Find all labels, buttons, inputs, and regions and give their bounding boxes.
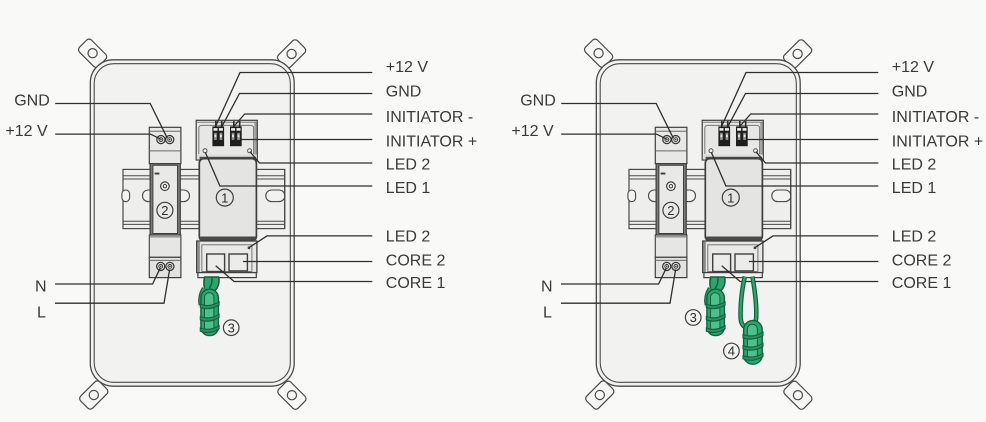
mounting tab top-right (B) [782, 38, 813, 69]
cable W4B coil wraps [743, 332, 763, 360]
svg-text:LED 2: LED 2 [386, 156, 431, 173]
svg-text:LED 2: LED 2 [892, 229, 937, 246]
mounting tab bottom-right (B) [782, 380, 813, 411]
device U2 screw (A) [161, 182, 170, 191]
DIN rail slot right end (A) [266, 190, 285, 202]
cable W4B lead wire left [741, 277, 746, 328]
svg-text:CORE 2: CORE 2 [386, 253, 446, 270]
device U2 terminal L (bottom right) (B) [672, 262, 680, 270]
callout line L (B) [561, 270, 676, 304]
DIN rail slot left end (B) [628, 190, 636, 202]
device U2 lower band (A) [149, 235, 181, 257]
device U1 terminal block left (+12V/GND) pins (B) [718, 121, 730, 146]
device U1 terminal block right (INITIATOR) pins (A) [230, 121, 242, 146]
callout line LED 2 (top) (A) [250, 152, 372, 163]
DIN rail slot 2 (B) [649, 190, 665, 202]
device U1 LED 1 dot (A) [203, 149, 207, 153]
device U2 lower band (B) [655, 235, 687, 257]
svg-text:1: 1 [221, 190, 228, 205]
cable W3B lead wires [710, 277, 725, 292]
svg-text:+12 V: +12 V [892, 59, 935, 76]
callout line GND (A) [222, 94, 372, 127]
device U1 terminal block right (INITIATOR) pins (B) [736, 121, 748, 146]
device U1 body top shadow band (B) [706, 157, 763, 160]
svg-text:CORE 1: CORE 1 [892, 275, 952, 292]
mounting tab top-right (A) [276, 38, 307, 69]
label circled 4 (B) [724, 343, 740, 359]
device U2 terminal +12V (top left) (A) [157, 136, 165, 144]
callout line LED 2 (bottom) (A) [249, 236, 372, 248]
svg-text:2: 2 [667, 203, 674, 218]
svg-text:GND: GND [892, 84, 928, 101]
callout line +12 V left (A) [55, 134, 160, 139]
device U1 LED 2 square indicator (B) [754, 247, 757, 250]
device U2 terminal L (bottom right) (A) [166, 262, 174, 270]
device U1 bottom flange (B) [704, 273, 762, 278]
device U1 CORE 2 socket (B) [735, 254, 753, 271]
cable W3A lead wire split [209, 277, 212, 288]
svg-text:+12 V: +12 V [386, 59, 429, 76]
cable W3B lead wire split [715, 277, 718, 288]
svg-text:4: 4 [728, 344, 735, 359]
callout line INITIATOR + (B) [747, 139, 878, 141]
svg-text:GND: GND [386, 84, 422, 101]
svg-text:LED 2: LED 2 [386, 229, 431, 246]
enclosure box outer wall (A) [90, 60, 294, 386]
callout line LED 2 (bottom) (B) [755, 236, 878, 248]
device U1 top terminal section (B) [702, 120, 763, 160]
svg-text:L: L [37, 304, 46, 321]
device U1 LED 1 dot (B) [709, 149, 713, 153]
svg-text:INITIATOR -: INITIATOR - [892, 109, 979, 126]
callout line +12 V (B) [722, 73, 879, 127]
svg-text:CORE 1: CORE 1 [386, 275, 446, 292]
label circled 1 (B) [722, 189, 739, 206]
callout line +12 V left (B) [561, 134, 666, 139]
cable W3B coil wraps [706, 302, 725, 333]
callout line INITIATOR - (B) [740, 114, 878, 126]
callout line CORE 1 (B) [722, 266, 879, 282]
device U1 bottom flange (A) [198, 273, 256, 278]
cable W3A coil body [201, 289, 219, 335]
enclosure box outer wall (B) [596, 60, 800, 386]
callout line CORE 1 (A) [216, 266, 373, 282]
DIN rail (B) [629, 169, 791, 228]
mounting tab top-left (A) [77, 38, 108, 69]
callout line N (B) [561, 268, 666, 284]
mounting tab bottom-right (A) [276, 380, 307, 411]
svg-text:+12 V: +12 V [5, 123, 48, 140]
device U1 LED 2 dot (A) [248, 149, 252, 153]
callout line GND (B) [728, 94, 878, 127]
DIN rail slot 2 (A) [143, 190, 159, 202]
cable W4B coil body [744, 321, 763, 365]
label circled 3 (A) [223, 320, 239, 336]
device U2 terminal +12V (top left) (B) [663, 136, 671, 144]
device U2 screw (B) [667, 182, 676, 191]
device U1 bottom connector housing (B) [703, 241, 763, 273]
device U1 terminal block left (+12V/GND) pins (A) [212, 121, 224, 146]
callout line +12 V (A) [216, 73, 373, 127]
callout line GND left (A) [55, 104, 167, 139]
callout line N (A) [55, 268, 160, 284]
cable W3A left loop [201, 289, 205, 306]
DIN rail slot right end (B) [772, 190, 791, 202]
device U1 body top shadow band (A) [200, 157, 257, 160]
callout line LED 2 (top) (B) [756, 152, 878, 163]
svg-text:LED 1: LED 1 [386, 180, 431, 197]
device U2 terminal GND (top right) (B) [672, 136, 680, 144]
callout line LED 1 (A) [205, 152, 372, 186]
svg-text:INITIATOR +: INITIATOR + [386, 133, 477, 150]
svg-text:INITIATOR +: INITIATOR + [892, 133, 983, 150]
label circled 3 (B) [685, 310, 701, 326]
svg-text:+12 V: +12 V [511, 123, 554, 140]
svg-text:L: L [543, 304, 552, 321]
device U1 bottom connector housing (A) [197, 241, 257, 273]
svg-text:CORE 2: CORE 2 [892, 253, 952, 270]
svg-text:3: 3 [690, 310, 697, 325]
mounting tab top-left (B) [583, 38, 614, 69]
DIN rail slot 3 (B) [680, 190, 696, 202]
label circled 2 (B) [663, 202, 679, 218]
device U2 bottom terminal block (B) [655, 257, 687, 277]
svg-text:N: N [35, 279, 47, 296]
svg-text:GND: GND [520, 93, 556, 110]
svg-text:N: N [541, 279, 553, 296]
device U2 terminal N (bottom left) (B) [663, 262, 671, 270]
mounting tab bottom-left (A) [78, 379, 109, 410]
DIN rail (A) [123, 169, 285, 228]
DIN rail slot left end (A) [122, 190, 130, 202]
device U1 main body (B) [705, 159, 762, 241]
device U2 face tick mark (A) [155, 173, 160, 175]
cable W3B left loop [707, 289, 711, 306]
callout line LED 1 (B) [711, 152, 878, 186]
device U2 front face (B) [656, 164, 686, 235]
device U1 main body (A) [199, 159, 256, 241]
svg-text:3: 3 [228, 320, 235, 335]
enclosure box inner wall (B) [600, 64, 796, 383]
svg-text:1: 1 [727, 190, 734, 205]
callout line INITIATOR - (A) [234, 114, 372, 126]
device U1 CORE 1 socket (B) [713, 254, 731, 272]
device U1 CORE 1 socket (A) [207, 254, 225, 272]
device U2 bottom terminal block (A) [149, 257, 181, 277]
device U1 CORE 2 socket (A) [229, 254, 247, 271]
svg-text:2: 2 [161, 203, 168, 218]
device U2 terminal GND (top right) (A) [166, 136, 174, 144]
label circled 1 (A) [216, 189, 233, 206]
device U1 LED 2 square indicator (A) [248, 247, 251, 250]
cable W3A coil wraps [200, 302, 219, 333]
label circled 2 (A) [157, 202, 173, 218]
cable W3A lead wires [204, 277, 219, 292]
svg-text:LED 1: LED 1 [892, 180, 937, 197]
callout line L (A) [55, 270, 170, 304]
svg-text:GND: GND [14, 93, 50, 110]
svg-text:INITIATOR -: INITIATOR - [386, 109, 473, 126]
callout line CORE 2 (A) [243, 261, 372, 263]
device U2 terminal N (bottom left) (A) [157, 262, 165, 270]
device U2 top terminal block (A) [149, 127, 181, 163]
svg-text:LED 2: LED 2 [892, 156, 937, 173]
callout line GND left (B) [561, 104, 673, 139]
cable W4B lead wire right [752, 277, 756, 324]
device U2 top terminal block (B) [655, 127, 687, 163]
device U1 LED 2 dot (B) [754, 149, 758, 153]
mounting tab bottom-left (B) [584, 379, 615, 410]
device U1 top terminal section (A) [196, 120, 257, 160]
cable W3B coil body [707, 289, 725, 335]
callout line CORE 2 (B) [749, 261, 878, 263]
enclosure box inner wall (A) [94, 64, 290, 383]
device U2 front face (A) [150, 164, 180, 235]
callout line INITIATOR + (A) [241, 139, 372, 141]
device U2 face tick mark (B) [661, 173, 666, 175]
DIN rail slot 3 (A) [174, 190, 190, 202]
